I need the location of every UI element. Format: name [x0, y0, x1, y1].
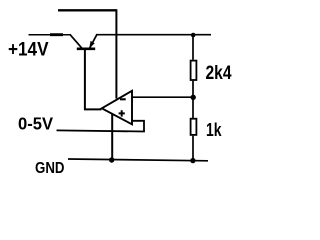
svg-text:GND: GND	[35, 160, 65, 177]
svg-text:2k4: 2k4	[206, 63, 232, 84]
svg-text:0-5V: 0-5V	[18, 113, 53, 133]
svg-text:1k: 1k	[206, 120, 222, 140]
svg-text:+14V: +14V	[8, 40, 49, 61]
